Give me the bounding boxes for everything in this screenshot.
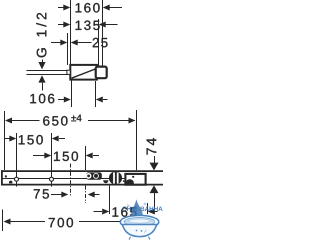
dimension 135 tail right: [106, 24, 118, 26]
arrow diameter up: [150, 185, 159, 193]
arrow 165 left: [102, 209, 109, 215]
slider slot 2: [117, 172, 119, 183]
diameter leader upper: [154, 156, 156, 163]
outlet hole 2 ring: [93, 173, 99, 179]
extension line left/front x70.5: [70, 0, 72, 65]
watermark tub foot left: [129, 237, 131, 240]
arrow 25 right: [71, 40, 78, 46]
knob left of slider: [103, 180, 108, 183]
holder box: [125, 174, 145, 185]
fixing hole 2: [50, 177, 54, 181]
extension line 650-left x4.5: [4, 111, 6, 170]
extension line 160-right x102.5: [102, 0, 104, 66]
watermark drop shade: [131, 199, 137, 220]
arrow 25 left: [60, 40, 67, 46]
watermark tub body: [122, 225, 156, 237]
fixing hole 1: [15, 177, 19, 181]
side view wall flange: [96, 67, 107, 79]
text 150a: [19, 135, 43, 145]
bar inner line: [3, 178, 125, 180]
extension line 135-right x98.5: [98, 19, 100, 66]
dimension 650 line left: [12, 120, 40, 122]
text 150b: [54, 152, 78, 162]
outlet hole 1 center: [87, 175, 90, 178]
extension line 700-left x3: [2, 210, 4, 232]
text 650: [43, 116, 67, 126]
G1/2 plate line upper: [27, 70, 69, 72]
outlet dark band: [86, 172, 102, 179]
watermark tub eye 2: [141, 230, 143, 232]
arrow 75 left: [61, 192, 68, 198]
arrow 106 right: [96, 97, 103, 103]
watermark tub rim inner: [125, 217, 155, 226]
arrow 160 left: [63, 5, 70, 11]
text 160: [76, 3, 100, 13]
extension line 25-left x67.5: [67, 33, 69, 65]
dimension 106 tail left: [58, 99, 64, 101]
dimension 165 tail right: [155, 211, 158, 213]
centerline hose x70.5: [70, 164, 72, 197]
arrow 75 right: [88, 192, 95, 198]
watermark water swirl: [128, 219, 151, 223]
bar top edge: [1, 170, 163, 172]
extension line slider x109.5: [109, 186, 111, 214]
text ±4 superscript: [71, 115, 81, 122]
watermark tub foot right: [149, 237, 151, 240]
dimension 25 tail right: [78, 42, 92, 44]
arrow 650 right: [129, 118, 136, 124]
arrow 150b left: [44, 153, 51, 159]
text 165: [113, 207, 137, 217]
dimension 75 tail left: [51, 194, 62, 196]
watermark sparkle left: [127, 204, 130, 207]
dimension 25 tail left: [51, 42, 61, 44]
screw dot left: [5, 175, 7, 177]
text 106: [30, 94, 54, 104]
arrow diameter down: [150, 163, 159, 171]
slider slot 1: [113, 172, 115, 183]
dot right of slider: [123, 180, 125, 182]
text 135: [76, 21, 100, 31]
extension line 165-right x147.5: [147, 203, 149, 214]
extension line hole1 x16.5: [16, 133, 18, 187]
dimension 150a tail left: [5, 138, 10, 140]
extension line 106-right x95.5: [95, 81, 97, 107]
dimension 106 tail right: [103, 99, 108, 101]
side view diagonal face line: [72, 69, 96, 78]
outlet hole 1 ring: [86, 173, 92, 179]
G1/2 leader upper: [42, 60, 44, 63]
G1/2 leader lower: [42, 83, 44, 91]
arrow 165 right: [148, 209, 155, 215]
arrow 160 right: [103, 5, 110, 11]
extension line 650-right x136.2: [136, 110, 138, 170]
arrow 650 left: [5, 118, 12, 124]
extension line hole2 x51.5: [51, 133, 53, 187]
arrow G1/2 up: [38, 75, 45, 82]
watermark group: [120, 199, 162, 239]
arrow 150b right: [86, 153, 93, 159]
label 74 (rotated): [147, 138, 157, 155]
dimension 160 tail left: [58, 7, 64, 9]
dimension 150b tail left: [33, 155, 45, 157]
outlet hole 2 center: [94, 174, 98, 178]
G1/2 plate line lower: [27, 74, 69, 76]
text 25: [93, 38, 108, 48]
holder dot: [132, 176, 134, 178]
watermark tub mark: [144, 230, 146, 233]
arrow G1/2 down: [38, 62, 45, 69]
watermark tub rim: [120, 215, 159, 228]
slider grip circle: [109, 171, 122, 184]
arrow 106 left: [64, 97, 71, 103]
dimension 75 tail right: [94, 194, 100, 196]
bar left edge: [1, 170, 3, 185]
dimension 165 tail left: [94, 211, 103, 213]
holder clamp blob: [126, 179, 134, 184]
watermark tub eye 1: [136, 230, 138, 232]
clamp left: [9, 181, 12, 184]
watermark drop: [131, 199, 142, 220]
centerline hole3 lower x85.5: [85, 186, 87, 203]
bar bottom edge: [1, 184, 163, 186]
arrow 150a left: [9, 136, 16, 142]
arrow 700 left: [4, 219, 11, 225]
text 700: [49, 218, 73, 228]
text 75: [34, 189, 49, 198]
dimension 700 line left: [11, 221, 46, 223]
arrow 135 right: [99, 22, 106, 28]
diameter leader lower: [154, 193, 156, 212]
dimension 160 tail right: [110, 7, 123, 9]
text G 1/2 (rotated): [36, 13, 46, 57]
dimension 650 line right: [88, 120, 129, 122]
dimension 700 line right: [79, 221, 126, 223]
watermark sparkle right: [144, 203, 147, 206]
extension line front lower x71.5: [71, 81, 73, 108]
side view G1/2 nub: [67, 70, 70, 74]
dimension 150b tail right: [93, 155, 99, 157]
arrow 150a right: [52, 136, 59, 142]
dimension 150a tail right: [59, 138, 65, 140]
dimension 135 tail left: [58, 24, 64, 26]
extension line hole3 x85.5: [85, 146, 87, 170]
watermark text: [122, 207, 162, 212]
arrow 135 left: [63, 22, 70, 28]
side view bar body: [70, 65, 97, 80]
